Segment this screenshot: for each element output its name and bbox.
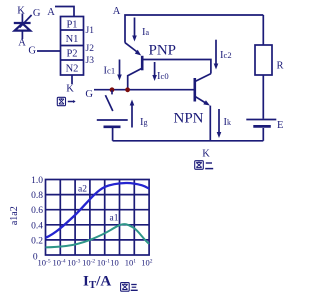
svg-text:Ic0: Ic0 [157,71,169,82]
cathode wire from stack [71,75,73,84]
thyristor cathode bar [14,22,31,24]
gridline v6 [133,180,135,256]
battery E long plate [246,119,276,121]
current arrow Ic2 [214,40,219,70]
node junction dot 2 [125,87,130,92]
switch stub wire [111,90,113,94]
svg-text:A: A [47,7,55,18]
thyristor anode lead wire [21,31,23,39]
curve a1 [46,224,150,247]
wire resistor to battery E [262,75,264,119]
NPN collector wire [196,74,211,82]
svg-text:P1: P1 [66,19,77,30]
svg-text:K: K [66,84,74,95]
battery E short plate [253,125,270,128]
thyristor cathode lead wire [21,14,23,24]
caption 图三 [121,283,138,292]
transistor PNP base bar [141,56,144,71]
gate battery short plate [104,125,121,128]
svg-text:N1: N1 [66,34,79,45]
gridline h4 [46,239,150,241]
gridline v5 [119,180,121,256]
current arrow Ik [217,109,222,138]
svg-text:Ik: Ik [224,117,232,128]
bottom rail wire [113,140,264,142]
svg-text:PNP: PNP [149,43,177,59]
PNP emitter wire [125,43,139,53]
wire battery E to bottom rail [262,128,264,141]
top rail wire A to R [125,15,263,43]
wire rail to resistor [262,15,264,45]
svg-text:1.0: 1.0 [31,176,43,186]
wire PNP base to NPN collector [143,60,211,74]
svg-text:Ic1: Ic1 [104,66,116,77]
junction J2 divider [61,45,84,47]
svg-text:0.4: 0.4 [31,221,43,231]
svg-text:a2: a2 [78,185,87,195]
transistor NPN base bar [194,78,197,102]
gate rail wire G to NPN base [94,89,194,91]
gridline h3 [46,224,150,226]
svg-text:A: A [18,38,26,49]
svg-text:J1: J1 [86,26,95,36]
svg-text:K: K [17,5,25,16]
resistor R [255,45,272,75]
svg-text:G: G [33,8,41,19]
svg-text:a1a2: a1a2 [9,206,20,225]
svg-text:0.6: 0.6 [31,206,43,216]
svg-text:G: G [28,46,36,57]
thyristor triangle (anode) [15,23,31,30]
thyristor gate lead [20,15,32,28]
gridline v4 [104,180,106,256]
wire gate battery to bottom rail [112,128,114,141]
junction J3 divider [61,59,84,61]
svg-text:P2: P2 [66,49,77,60]
svg-text:Ig: Ig [140,117,148,128]
curve a2 [46,183,150,238]
svg-text:J2: J2 [86,44,95,54]
NPN emitter wire [196,97,207,104]
current arrow Ic1 [117,60,122,81]
gridline v1 [59,180,61,256]
svg-text:A: A [113,6,121,17]
svg-text:10: 10 [110,258,119,268]
current arrow Ia [132,18,137,42]
gate wire to P2 [37,50,61,52]
svg-text:0.2: 0.2 [31,236,43,246]
stack outline [61,17,84,76]
svg-text:Ia: Ia [142,27,150,38]
current arrow Ig [130,100,135,128]
svg-text:IT/A: IT/A [83,274,111,292]
gridline v2 [74,180,76,256]
gridline h2 [46,209,150,211]
PNP emitter arrowhead [135,50,141,56]
caption 图一 [57,97,75,105]
current arrow Ic0 [152,62,157,81]
gridline h1 [46,194,150,196]
gridline v3 [89,180,91,256]
svg-text:J3: J3 [86,56,95,66]
node junction dot 1 [110,87,115,92]
svg-text:Ic2: Ic2 [220,50,232,61]
NPN emitter arrowhead [203,100,210,105]
svg-text:0.8: 0.8 [31,191,43,201]
gate battery long plate [97,119,128,121]
svg-text:E: E [277,120,283,131]
PNP collector wire [128,69,142,89]
caption 图二 [195,161,214,170]
svg-text:NPN: NPN [174,111,204,127]
switch blade [105,95,112,111]
svg-text:G: G [85,89,93,100]
svg-text:a1: a1 [110,214,119,224]
anode wire to stack [55,7,74,17]
junction J1 divider [61,29,84,31]
svg-text:N2: N2 [66,63,79,74]
svg-text:R: R [277,61,284,72]
svg-text:K: K [202,149,210,160]
graph frame [46,180,150,256]
NPN emitter to bottom rail wire [209,106,211,141]
